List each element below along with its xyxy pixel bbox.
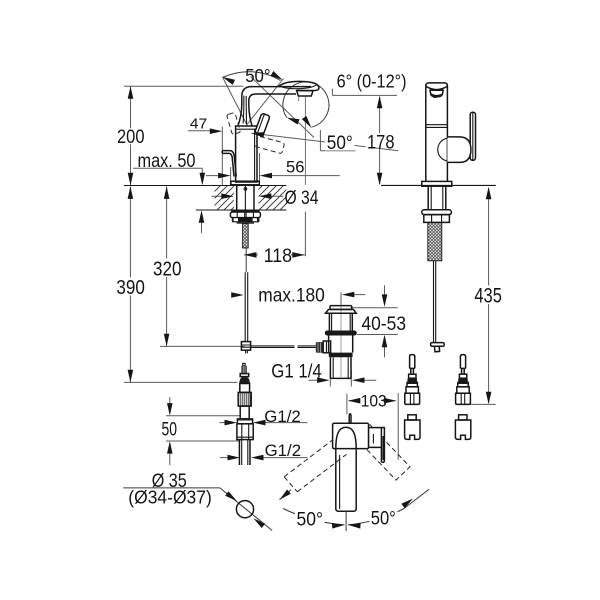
- solid handle: [255, 113, 270, 136]
- dim 178 vertical: [379, 97, 381, 184]
- side head bowl rim: [426, 86, 447, 89]
- side threaded rod: [428, 222, 442, 260]
- side base flange: [422, 181, 452, 186]
- fitting pin: [243, 363, 245, 365]
- WASTE: [316, 305, 357, 379]
- rod tip below clamp: [246, 350, 248, 353]
- dim 435 bottom extension: [469, 403, 496, 405]
- 50deg right label elbow: [320, 130, 355, 151]
- arrow 320 bottom: [164, 334, 170, 347]
- arrow max50 right-down: [200, 173, 206, 186]
- arrow 435 top: [486, 187, 492, 200]
- flex hose left: [405, 355, 420, 440]
- dim 40-53 upper extension: [351, 307, 398, 309]
- dim 118 right extension: [304, 212, 306, 256]
- dim 200 extension top: [124, 85, 244, 87]
- arrow streamarc left: [286, 115, 300, 125]
- waste body: [329, 336, 353, 353]
- plan left leader: [280, 490, 292, 500]
- dim 50 lines: [166, 416, 240, 441]
- svg-text:50°: 50°: [297, 509, 324, 531]
- svg-text:6° (0-12°): 6° (0-12°): [337, 72, 407, 92]
- body top cap line: [236, 128, 257, 130]
- knob connector: [323, 341, 330, 353]
- side aerator cup: [430, 90, 443, 96]
- dim 320 vertical: [166, 187, 168, 347]
- dim 435 vertical: [488, 188, 490, 403]
- handle axis ray long: [252, 133, 399, 151]
- arrow d34 left: [221, 193, 234, 199]
- arrow G12up right: [253, 420, 266, 426]
- body: [236, 126, 257, 182]
- dim 103 shafts: [349, 400, 396, 402]
- valve pull rod: [349, 414, 351, 429]
- arrow G12low left: [228, 455, 241, 461]
- arrow 435 bottom: [486, 392, 492, 405]
- arrow handle-axis: [251, 130, 264, 137]
- arrow max50 up: [199, 210, 205, 223]
- knurled knob: [316, 342, 323, 353]
- fitting cylinder1: [240, 384, 250, 393]
- plan left arc: [283, 509, 344, 525]
- dim 390 bottom extension: [124, 381, 238, 383]
- shank screw hole: [244, 188, 247, 191]
- side body outline: [426, 83, 448, 182]
- 50deg lever ray mid: [251, 77, 315, 138]
- arrow plan left leader: [278, 489, 291, 501]
- 50deg arc ray right: [247, 79, 284, 125]
- 6 deg reference elbow: [332, 89, 397, 96]
- arrow 50dim top: [167, 403, 173, 416]
- housing inner dome arc: [438, 138, 447, 161]
- hook lever left: [222, 151, 236, 177]
- arrow max180 right: [342, 292, 355, 298]
- dashed swing handle right: [356, 424, 410, 480]
- svg-text:Ø 34: Ø 34: [285, 187, 319, 209]
- plan dome arc: [336, 427, 356, 448]
- plan blade: [381, 428, 384, 463]
- svg-text:320: 320: [153, 258, 182, 281]
- dim 320 bottom extension: [160, 345, 245, 347]
- fitting cylinder2: [240, 406, 249, 419]
- arrow 200 top: [128, 86, 134, 99]
- shank below counter: [237, 186, 254, 210]
- fitting hex nut: [237, 424, 253, 440]
- dim Ø34 line: [212, 195, 284, 197]
- svg-text:G1 1/4: G1 1/4: [271, 360, 322, 382]
- side shank: [428, 186, 446, 210]
- dim 47 leader: [188, 130, 214, 132]
- arrow G12low right: [251, 455, 264, 461]
- nut line: [237, 222, 254, 223]
- side nut: [424, 215, 450, 223]
- handle blade: [470, 112, 475, 160]
- svg-text:118: 118: [264, 245, 293, 267]
- shank centerline: [244, 186, 246, 210]
- stream left tick: [298, 97, 300, 102]
- dashed handle right-down: [255, 136, 284, 154]
- pull rod lower: [245, 272, 248, 341]
- svg-text:50°: 50°: [245, 66, 271, 86]
- base plate: [231, 181, 259, 185]
- plan grip: [369, 428, 384, 448]
- arrow 56 right: [260, 173, 273, 179]
- dim G1/2 upper line: [219, 422, 307, 424]
- rod clamp block: [241, 342, 250, 351]
- waste centerline: [340, 305, 342, 378]
- arrow 200 bottom: [128, 173, 134, 186]
- body inner right line: [254, 129, 256, 181]
- dim 390 vertical: [129, 187, 131, 383]
- dim 40-53 lower extension: [357, 334, 398, 336]
- dim G1 1/4 extensions: [330, 370, 351, 386]
- svg-text:G1/2: G1/2: [264, 408, 301, 426]
- spout column and arm: [238, 87, 311, 126]
- plug neck: [329, 313, 352, 330]
- svg-text:40-53: 40-53: [362, 313, 407, 335]
- flex hose right: [455, 355, 470, 440]
- arrow G12up left: [225, 420, 238, 426]
- fitting washer: [240, 374, 249, 377]
- arrow d35 lower: [252, 516, 265, 528]
- fitting screw head: [241, 366, 246, 374]
- waste centerline upper: [340, 292, 342, 304]
- aerator: [297, 91, 313, 96]
- side body joint lines: [426, 125, 448, 128]
- arrow 50top left: [221, 74, 235, 84]
- arrow 50dim bottom: [167, 441, 173, 454]
- threaded rod front: [243, 223, 249, 248]
- arrow 40-53 bottom: [382, 335, 388, 348]
- svg-text:47: 47: [190, 116, 208, 133]
- fitting pipe: [239, 440, 250, 465]
- plan right arc: [348, 489, 429, 525]
- svg-text:435: 435: [474, 285, 502, 308]
- rod T-clip: [431, 343, 445, 347]
- arrow planarc left inner: [332, 522, 345, 528]
- fitting flange: [237, 419, 252, 424]
- washer dark top bar: [231, 210, 260, 212]
- plug flare: [326, 310, 357, 314]
- dim 118 line: [244, 254, 305, 256]
- side washer: [422, 210, 452, 215]
- seal ring dark: [325, 331, 357, 336]
- svg-text:390: 390: [116, 276, 145, 299]
- spout arm bottom edge: [249, 94, 296, 126]
- side cartridge housing: [447, 137, 471, 163]
- hole circle: [236, 501, 253, 518]
- svg-text:200: 200: [117, 126, 145, 148]
- lever rod horizontal: [251, 346, 316, 348]
- arrow 118 right: [292, 252, 305, 258]
- svg-text:max.180: max.180: [258, 284, 325, 306]
- arrow 103 right: [384, 398, 397, 404]
- svg-text:56: 56: [286, 157, 305, 176]
- arrow d34 right: [259, 193, 272, 199]
- dim 47 extension line: [221, 127, 223, 186]
- dim 50 shafts: [169, 397, 171, 465]
- washer white ring: [230, 212, 260, 218]
- pull rod thin upper: [245, 248, 247, 272]
- ARROWS: [128, 71, 492, 529]
- dim 103 extensions: [347, 393, 398, 460]
- dim max.50 label line: [133, 168, 202, 183]
- dashed swing handle left: [284, 440, 346, 492]
- svg-text:50°: 50°: [327, 132, 353, 154]
- arrow 178 bottom: [377, 173, 383, 186]
- fitting ball: [239, 377, 250, 384]
- arrow 178 top: [377, 96, 383, 109]
- plan spout tube: [336, 449, 356, 512]
- dim G1/2 lower line: [220, 457, 307, 459]
- stream tilt arc: [283, 82, 329, 127]
- plan centerline: [345, 511, 347, 531]
- plug cap: [330, 306, 352, 310]
- arrow d35 upper: [225, 491, 238, 503]
- svg-text:50: 50: [162, 419, 178, 440]
- svg-text:103: 103: [361, 391, 387, 410]
- neck inner lines: [243, 96, 247, 125]
- body lower dark band: [329, 353, 353, 358]
- lug row dark: [232, 218, 260, 223]
- SIDEVIEW: [422, 83, 476, 352]
- tube inner line: [339, 455, 341, 509]
- side aerator dark lip: [431, 93, 442, 98]
- arrow G114 right: [352, 377, 365, 383]
- text halo masks: [115, 128, 504, 527]
- fitting knurl ring: [238, 392, 251, 406]
- max50 below-slab arrow shaft: [201, 212, 203, 233]
- dim max180 shafts: [232, 294, 366, 296]
- svg-text:50°: 50°: [371, 508, 396, 530]
- arrow 50top right: [271, 71, 285, 82]
- svg-text:G1/2: G1/2: [265, 442, 302, 460]
- dim 40-53 upper shaft: [384, 285, 386, 297]
- arrow planarc right outer: [401, 496, 414, 508]
- arrow streamarc right: [302, 116, 314, 129]
- arrow 56 left: [218, 173, 231, 179]
- spout head dome: [279, 81, 319, 90]
- arrow planarc right inner: [348, 522, 361, 528]
- tail thread: [330, 357, 351, 378]
- baseline right segment: [381, 184, 496, 186]
- water stream: [304, 97, 306, 186]
- arrow 118 left: [244, 252, 257, 258]
- arrow max180 left: [231, 292, 244, 298]
- arrow 47: [210, 128, 223, 134]
- svg-text:178: 178: [367, 131, 395, 153]
- 50deg arc ray left: [223, 77, 248, 126]
- DIMS-TOPLEFT: [123, 72, 496, 531]
- side pull rod: [434, 261, 436, 343]
- svg-text:max. 50: max. 50: [138, 151, 196, 172]
- dim Ø35 leader: [123, 488, 272, 531]
- slab bottom line: [196, 209, 286, 211]
- SHANK FITTING bottom-left: [237, 363, 253, 465]
- FRONTVIEW: [196, 81, 319, 353]
- dim G1 1/4 shafts: [308, 379, 376, 381]
- arrow 390 top: [128, 186, 134, 199]
- dim 40-53 lower shaft: [384, 344, 386, 357]
- PLANVIEW: [236, 414, 429, 531]
- arrow 40-53 top: [382, 294, 388, 307]
- dim 56 extension lines: [231, 153, 260, 186]
- countertop baseline: [124, 185, 286, 187]
- 50deg top arc: [223, 72, 281, 81]
- arrow 103 left: [348, 398, 361, 404]
- dim 56 line: [206, 175, 340, 177]
- dim 200 vertical: [130, 86, 132, 185]
- arrow 390 bottom: [128, 370, 134, 383]
- head inner curve: [281, 85, 316, 89]
- svg-text:(Ø34-Ø37): (Ø34-Ø37): [128, 488, 212, 508]
- arrow G114 left: [317, 377, 330, 383]
- arrow 320 top: [164, 186, 170, 199]
- plan body block: [333, 423, 369, 448]
- dashed handle left: [227, 112, 241, 134]
